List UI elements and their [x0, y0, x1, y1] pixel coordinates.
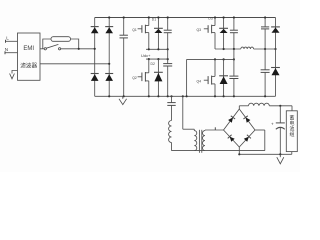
ground at EMI box: [10, 71, 18, 79]
resonant inductor L2: [169, 121, 172, 151]
node rail R F: [233, 58, 235, 60]
right vertex link: [255, 130, 265, 151]
battery bottom stub: [291, 152, 293, 155]
svg-text:D3: D3: [208, 17, 212, 21]
battery negative wire (line B): [239, 153, 291, 155]
capacitor C6 right leg: [261, 18, 270, 97]
svg-text:L: L: [6, 36, 9, 41]
MOSFET Q4: [204, 59, 215, 96]
svg-text:+: +: [271, 122, 274, 127]
ground mid: [119, 96, 127, 104]
resonant capacitor C7: [167, 96, 175, 120]
svg-text:池: 池: [289, 125, 294, 132]
node rail P A: [148, 48, 150, 50]
svg-text:EMI: EMI: [23, 46, 34, 52]
diode D9 right leg top: [271, 18, 280, 97]
node line B bottom stub: [238, 153, 240, 155]
node rail Q C: [167, 58, 169, 60]
ground output: [277, 154, 284, 164]
node battery feed cap: [279, 105, 281, 107]
svg-text:Q2: Q2: [132, 76, 137, 80]
svg-text:D2: D2: [151, 62, 155, 66]
svg-text:滤波器: 滤波器: [20, 62, 37, 70]
node rail Q B: [157, 58, 159, 60]
terminal L: [6, 40, 18, 43]
transformer T1 secondary: [203, 130, 206, 151]
EMI filter box U1: [18, 33, 41, 80]
diode D4 leg2 bottom: [105, 74, 113, 81]
wire switch to bridge: [61, 48, 95, 50]
node bus top C2: [108, 17, 110, 19]
bridge leg 1 wire: [94, 18, 96, 97]
svg-text:蓄: 蓄: [289, 114, 294, 121]
transformer T1 primary: [194, 129, 197, 150]
secondary bottom wire (line A): [172, 150, 265, 152]
diode D6 (Q3 body): [154, 59, 163, 96]
node C6 bus bottom: [264, 95, 266, 97]
node rail S diode leg: [274, 48, 276, 50]
rail Q: [146, 58, 168, 60]
node leg1 mid: [94, 48, 96, 50]
bottom DC bus: [95, 95, 276, 97]
bridge diode BD2: [243, 116, 250, 123]
svg-text:D1: D1: [152, 17, 156, 21]
node rail S F: [233, 48, 235, 50]
svg-text:电: 电: [289, 120, 294, 127]
bus bottom junction dots: [148, 95, 225, 97]
diode D7 (Q2 body): [219, 18, 228, 50]
node F bus bottom: [233, 95, 235, 97]
junction resistor/switch: [78, 48, 80, 50]
bridge diode BD1: [228, 116, 235, 123]
bridge diode BD4: [244, 135, 251, 142]
bridge top stub: [238, 106, 240, 109]
node C1 bottom: [123, 95, 125, 97]
diode D10 right leg bottom: [271, 68, 280, 76]
diode D1 leg1 top: [91, 27, 99, 34]
node rail Q A: [148, 58, 150, 60]
MOSFET Q3: [138, 59, 149, 96]
diode bridge diamond wires: [224, 109, 256, 147]
node rail P B: [157, 48, 159, 50]
svg-text:Q1: Q1: [132, 28, 137, 32]
primary feed wire: [183, 96, 195, 129]
svg-text:N: N: [5, 47, 8, 52]
diode D5 (Q1 body): [154, 18, 163, 50]
transformer T1 core: [199, 130, 201, 153]
diode D8 (Q4 body): [219, 59, 228, 96]
rail P: [146, 48, 168, 50]
svg-text:组: 组: [289, 131, 294, 138]
svg-text:Q3: Q3: [196, 28, 201, 32]
relay switch K1: [44, 44, 61, 50]
terminal N: [5, 51, 18, 54]
electrolytic capacitor C8: [276, 106, 285, 155]
node rail R D: [214, 58, 216, 60]
bridge diode BD3: [228, 135, 235, 142]
node rail P C: [167, 48, 169, 50]
bridge bottom stub: [238, 147, 240, 154]
battery box B1: [286, 111, 297, 152]
rail S with inductor L1: [215, 47, 276, 49]
top DC bus: [95, 17, 276, 19]
node leg2 mid: [108, 63, 110, 65]
node C1 top: [123, 16, 125, 18]
node leg2 top: [108, 16, 110, 18]
MOSFET Q2: [204, 18, 215, 50]
battery feed wire with inductor L3: [239, 103, 292, 111]
svg-text:Udc+: Udc+: [141, 53, 151, 58]
MOSFET Q1: [138, 18, 149, 50]
link rail P to Q: [167, 49, 169, 59]
diode D2 leg2 top: [105, 27, 113, 34]
secondary top wire: [205, 127, 224, 130]
capacitor C5 (lower right cell): [229, 49, 238, 96]
node leg2 bottom: [108, 95, 110, 97]
bus top junction dots: [148, 16, 267, 18]
bulk capacitor C1: [120, 18, 128, 97]
node rail R E: [223, 58, 225, 60]
node line B cap: [279, 153, 281, 155]
bridge leg 2 wire: [108, 18, 110, 97]
wire EMI lower output: [40, 63, 109, 65]
svg-text:Q4: Q4: [196, 80, 201, 84]
node rail S E: [223, 48, 225, 50]
capacitor C4 (snubber Q2): [230, 18, 238, 50]
capacitor C3 (lower left cell): [163, 59, 172, 96]
diode D3 leg1 bottom: [91, 74, 99, 81]
resistor R1: [43, 37, 79, 49]
wire relay feed: [40, 48, 44, 50]
node rail S cap leg: [264, 48, 266, 50]
capacitor C2 (snubber Q1): [164, 18, 172, 50]
rail R: [187, 59, 234, 96]
